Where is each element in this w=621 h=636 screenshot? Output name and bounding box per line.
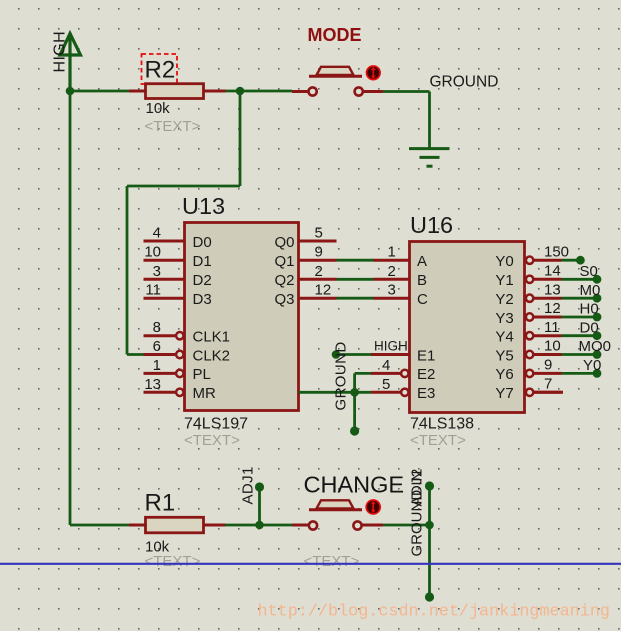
wire (ADJ2/GROUND IN vertical)	[428, 486, 431, 597]
U16 pin E2 (4)	[371, 370, 408, 377]
svg-text:R1: R1	[145, 490, 176, 517]
U13 pin D3 (11)	[144, 297, 185, 300]
wire (junction down)	[239, 91, 242, 186]
junction (ADJ1)	[255, 521, 264, 530]
svg-text:Y4: Y4	[495, 329, 513, 346]
wire (R2 to MODE button)	[225, 90, 292, 93]
U16 pin E3 (5)	[371, 389, 408, 396]
U16 pin Y6 (9)	[526, 370, 562, 377]
U13 pin Q3 (12)	[299, 297, 337, 300]
svg-text:MR: MR	[193, 385, 216, 402]
wire (Q2 to U16)	[337, 278, 374, 281]
svg-text:R2: R2	[145, 57, 176, 84]
svg-text:10: 10	[144, 244, 161, 261]
wire (Y5 net)	[562, 353, 598, 356]
svg-text:E2: E2	[417, 366, 435, 383]
svg-text:B: B	[417, 272, 427, 289]
wire (Y6 net)	[562, 372, 598, 375]
svg-text:CLK2: CLK2	[193, 347, 231, 364]
U16 pin C (3)	[374, 297, 410, 300]
svg-text:5: 5	[382, 376, 390, 393]
svg-text:11: 11	[145, 282, 161, 299]
svg-text:9: 9	[544, 357, 552, 374]
wire (Y2 net)	[562, 297, 598, 300]
svg-text:2: 2	[388, 263, 396, 280]
svg-text:Q1: Q1	[274, 253, 294, 270]
wire (Y3 net)	[562, 316, 598, 319]
U13 pin MR (13)	[144, 389, 184, 396]
svg-text:3: 3	[153, 263, 161, 280]
svg-text:<TEXT>: <TEXT>	[145, 118, 201, 135]
svg-text:13: 13	[144, 376, 161, 393]
U16 pin Y1 (14)	[526, 276, 562, 283]
U16 pin E1	[371, 353, 410, 356]
wire (Y1 net)	[562, 278, 598, 281]
wire (horizontal to left)	[127, 185, 240, 188]
junction (HIGH rail / R2)	[66, 87, 75, 96]
U13 pin D0 (4)	[144, 240, 185, 243]
svg-text:2: 2	[315, 263, 323, 280]
svg-text:10k: 10k	[146, 100, 171, 117]
svg-text:D3: D3	[193, 291, 212, 308]
svg-text:Y0: Y0	[583, 357, 601, 374]
svg-text:<TEXT>: <TEXT>	[410, 432, 466, 449]
svg-text:C: C	[417, 291, 428, 308]
svg-text:Q2: Q2	[274, 272, 294, 289]
svg-text:HIGH: HIGH	[374, 339, 408, 354]
U13 pin D1 (10)	[144, 259, 185, 262]
svg-text:Y1: Y1	[495, 272, 513, 289]
wire (Y7 stub)	[534, 391, 564, 394]
node ADJ2 (wire end)	[425, 481, 434, 490]
U13 pin Q2 (2)	[299, 278, 337, 281]
resistor R1	[129, 517, 226, 533]
svg-text:E1: E1	[417, 347, 435, 364]
svg-text:8: 8	[153, 319, 161, 336]
wire (down to ground symbol)	[428, 92, 431, 149]
svg-text:7: 7	[544, 376, 552, 393]
svg-text:http://blog.csdn.net/jankingme: http://blog.csdn.net/jankingmeaning	[258, 603, 610, 622]
wire (into CLK2 lead)	[127, 353, 147, 356]
resistor R2	[129, 84, 226, 99]
push button MODE	[292, 67, 383, 96]
wire (rail to R1)	[70, 524, 131, 527]
U16 pin Y7 (7)	[526, 389, 562, 396]
svg-text:U16: U16	[410, 212, 453, 238]
U16 pin Y5 (10)	[526, 351, 562, 358]
node (Y4 net end)	[593, 331, 602, 340]
svg-text:10: 10	[544, 338, 561, 355]
svg-text:4: 4	[153, 225, 161, 242]
svg-text:D1: D1	[193, 253, 212, 270]
svg-text:4: 4	[382, 357, 390, 374]
svg-text:13: 13	[544, 281, 561, 298]
svg-text:Y7: Y7	[495, 385, 513, 402]
svg-text:1: 1	[153, 357, 161, 374]
node ADJ1 (wire end)	[255, 482, 264, 491]
svg-text:A: A	[417, 253, 427, 270]
svg-text:6: 6	[153, 338, 161, 355]
push button CHANGE	[292, 500, 383, 529]
IC U16 74LS138 body	[410, 242, 525, 413]
svg-text:74LS138: 74LS138	[410, 416, 474, 433]
ground symbol	[409, 149, 450, 167]
node (Y3 net end)	[593, 313, 602, 322]
U16 pin Y0 (15)	[526, 257, 562, 264]
wire (HIGH net to E1)	[336, 353, 371, 356]
wire (ADJ1 stub)	[258, 487, 261, 525]
svg-text:E3: E3	[417, 385, 435, 402]
U16 pin Y3 (12)	[526, 313, 562, 320]
node (Y1 net end)	[593, 275, 602, 284]
node (Y2 net end)	[593, 294, 602, 303]
U13 pin PL (1)	[144, 370, 184, 377]
node (Y6 net end)	[593, 369, 602, 378]
wire (Y4 net)	[562, 334, 598, 337]
svg-text:1: 1	[388, 244, 396, 261]
svg-text:Q0: Q0	[274, 234, 294, 251]
U16 pin B (2)	[374, 278, 410, 281]
svg-text:M0: M0	[580, 282, 601, 299]
wire (GROUND vertical)	[353, 373, 356, 431]
node GROUND IN (wire end)	[425, 592, 434, 601]
svg-text:11: 11	[544, 319, 560, 336]
U16 pin Y2 (13)	[526, 295, 562, 302]
svg-text:12: 12	[315, 282, 332, 299]
svg-text:<TEXT>: <TEXT>	[304, 553, 360, 570]
svg-text:74LS197: 74LS197	[184, 416, 248, 433]
svg-text:D0: D0	[193, 234, 212, 251]
svg-text:12: 12	[544, 300, 561, 317]
node (Y0 net end)	[576, 256, 585, 265]
junction (R2 output)	[236, 87, 245, 96]
wire (HIGH to R2)	[70, 90, 131, 93]
svg-text:Y3: Y3	[495, 310, 513, 327]
svg-text:CHANGE: CHANGE	[304, 472, 405, 498]
resistor R2 selection box	[142, 54, 178, 84]
junction (GROUND net)	[350, 388, 359, 397]
svg-text:150: 150	[544, 243, 569, 260]
wire (button to ADJ2 net)	[383, 524, 430, 527]
svg-text:Y6: Y6	[495, 366, 513, 383]
svg-text:ADJ1: ADJ1	[240, 466, 257, 504]
svg-text:<TEXT>: <TEXT>	[184, 432, 240, 449]
U16 pin Y4 (11)	[526, 332, 562, 339]
svg-text:GROUND: GROUND	[333, 341, 350, 410]
svg-text:D0: D0	[580, 319, 599, 336]
svg-text:5: 5	[315, 225, 323, 242]
wire (Q3 to U16)	[337, 297, 374, 300]
U16 pin A (1)	[374, 259, 410, 262]
node (GROUND wire end)	[350, 426, 359, 435]
junction (ADJ2 net)	[425, 521, 434, 530]
sheet border line	[0, 563, 621, 565]
marker (CHANGE button actuator)	[366, 500, 380, 514]
svg-text:GROUND: GROUND	[430, 74, 499, 91]
IC U13 74LS197 body	[185, 223, 299, 411]
svg-text:H0: H0	[580, 301, 599, 318]
wire (left vertical HIGH rail)	[69, 91, 72, 525]
svg-text:<TEXT>: <TEXT>	[145, 553, 201, 570]
svg-text:Y0: Y0	[495, 253, 513, 270]
svg-text:Q3: Q3	[274, 291, 294, 308]
wire (down to CLK2)	[126, 186, 129, 355]
svg-text:PL: PL	[193, 366, 211, 383]
svg-text:3: 3	[388, 282, 396, 299]
U13 pin CLK1 (8)	[144, 332, 184, 339]
svg-text:14: 14	[544, 263, 561, 280]
U13 pin CLK2 (6)	[144, 351, 184, 358]
svg-text:Y2: Y2	[495, 291, 513, 308]
wire (GROUND net to E3)	[299, 391, 372, 394]
svg-text:D2: D2	[193, 272, 212, 289]
U13 pin Q0 (5)	[299, 240, 337, 243]
wire (GROUND net to E2)	[355, 372, 371, 375]
power symbol HIGH	[60, 33, 81, 92]
node (Y5 net end)	[593, 350, 602, 359]
U13 pin D2 (3)	[144, 278, 185, 281]
wire (Y0 net)	[562, 259, 581, 262]
marker (MODE button actuator)	[367, 66, 381, 80]
svg-text:S0: S0	[580, 263, 598, 280]
svg-text:9: 9	[315, 244, 323, 261]
node HIGH (E1 wire end)	[332, 350, 341, 359]
svg-text:MO0: MO0	[579, 338, 612, 355]
wire (Q1 to U16)	[337, 259, 374, 262]
svg-text:U13: U13	[182, 193, 225, 219]
svg-text:MODE: MODE	[308, 25, 362, 45]
svg-text:CLK1: CLK1	[193, 329, 231, 346]
svg-text:Y5: Y5	[495, 347, 513, 364]
svg-text:HIGH: HIGH	[52, 31, 69, 73]
U13 pin Q1 (9)	[299, 259, 337, 262]
svg-text:ADJ2: ADJ2	[409, 468, 426, 506]
wire (button to ground)	[383, 90, 430, 93]
wire (R1 to CHANGE button)	[225, 524, 292, 527]
